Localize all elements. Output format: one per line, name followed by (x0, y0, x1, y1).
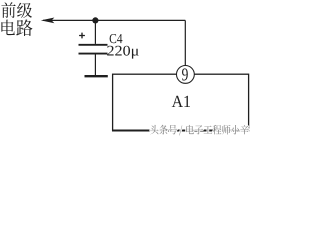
junction node dot (92, 17, 98, 23)
wire: horizontal feed line to 前级电路 (43, 19, 185, 21)
amplifier block A1 (113, 74, 249, 130)
node label: 前级电路 (preceding-stage circuit) (1, 2, 32, 36)
ground bar (85, 75, 108, 77)
label C4 (110, 34, 123, 43)
wire: junction down to C4 positive plate (94, 20, 96, 44)
label A1 (172, 96, 190, 107)
pin number 9 (182, 68, 188, 80)
value 220µ (107, 46, 138, 59)
wire: top line down to pin 9 of A1 (184, 20, 186, 66)
wire: C4 to ground (94, 55, 96, 76)
arrowhead pointing left (41, 18, 55, 24)
watermark: 头条号 / 电子工程师小辛 (150, 125, 249, 136)
capacitor C4 plus polarity mark (79, 33, 85, 39)
capacitor C4 top plate (79, 44, 108, 46)
A1 bottom edge (thicker) (112, 130, 249, 132)
pin 9 terminal circle (177, 66, 195, 84)
capacitor C4 bottom plate (79, 53, 108, 55)
